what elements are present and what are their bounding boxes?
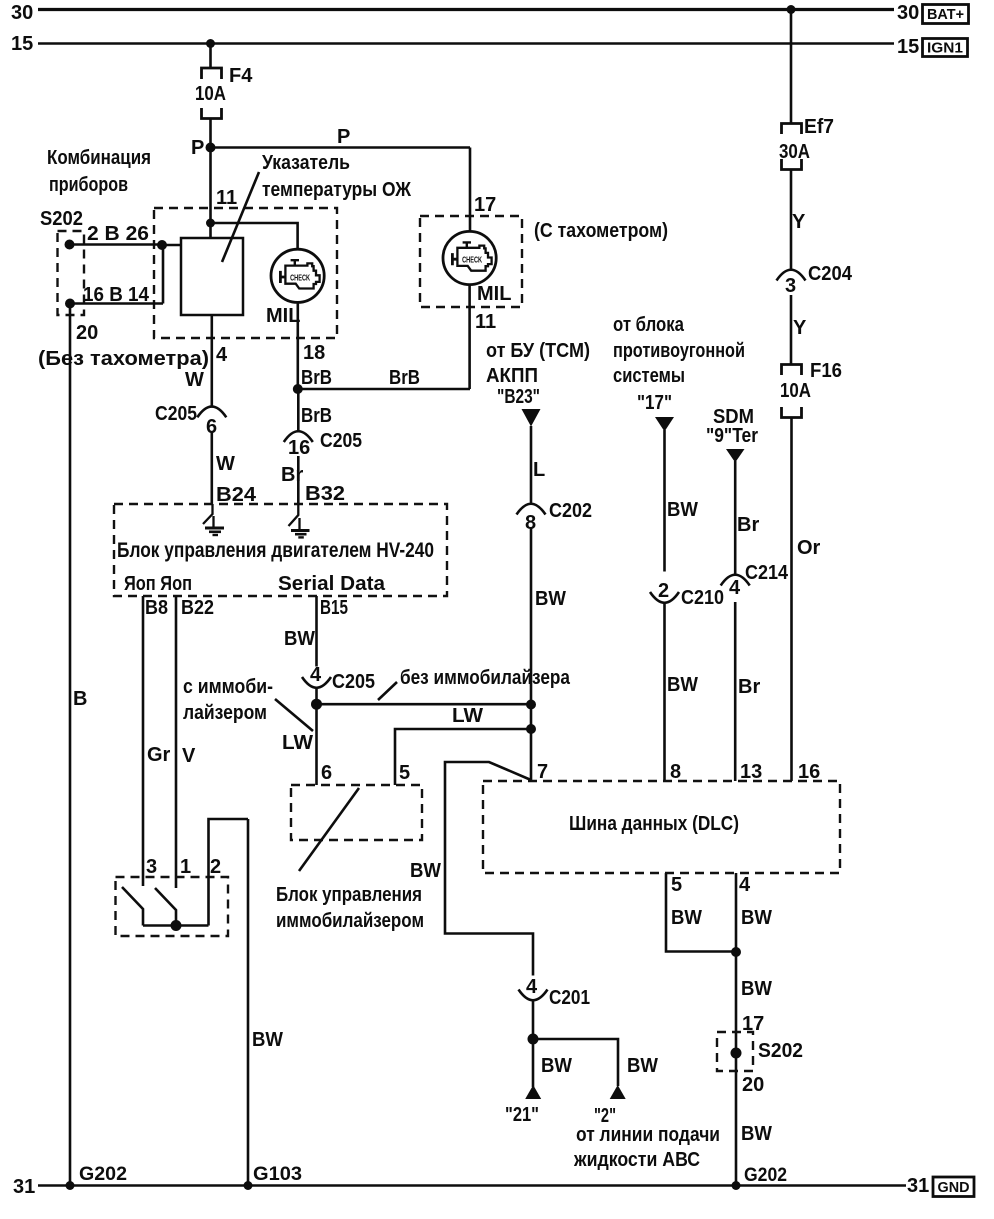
svg-text:7: 7 xyxy=(537,761,548,783)
wire BW from DLC pin 5 xyxy=(666,873,736,952)
svg-text:2: 2 xyxy=(658,580,669,602)
junction immobilizer split xyxy=(311,699,322,710)
wire from bus 30 to fuse Ef7 xyxy=(790,10,793,124)
svg-text:31: 31 xyxy=(13,1176,35,1198)
instrument cluster dashed box xyxy=(154,208,337,338)
svg-text:Y: Y xyxy=(793,317,807,339)
wire LW from junction down to immobilizer pin 6 xyxy=(315,704,318,785)
svg-text:B32: B32 xyxy=(305,483,345,505)
svg-text:18: 18 xyxy=(303,342,325,364)
junction on bus 30 at Ef7 branch xyxy=(787,5,796,14)
svg-text:4: 4 xyxy=(729,577,741,599)
svg-text:W: W xyxy=(216,453,235,475)
svg-text:от линии подачи: от линии подачи xyxy=(576,1124,720,1146)
wire from F4 to node P xyxy=(209,119,212,148)
svg-text:BW: BW xyxy=(252,1029,283,1051)
svg-text:Br: Br xyxy=(738,676,760,698)
svg-text:B22: B22 xyxy=(181,597,214,619)
source arrow B23 xyxy=(522,409,541,427)
wire L from B23 arrow to C202 xyxy=(530,426,533,503)
svg-text:C202: C202 xyxy=(549,500,592,522)
wire B8 (Gr) down to switch pin 3 xyxy=(142,596,145,886)
immobilizer annotation slash xyxy=(299,788,359,871)
svg-text:BAT+: BAT+ xyxy=(927,7,964,23)
svg-text:B8: B8 xyxy=(145,597,168,619)
svg-text:Br: Br xyxy=(737,514,759,536)
connector C205 pin 6 xyxy=(155,403,226,438)
svg-text:B15: B15 xyxy=(320,597,348,619)
svg-text:(С тахометром): (С тахометром) xyxy=(534,220,668,242)
wire S202-16 to cluster pin 14 xyxy=(70,302,163,305)
bus 31 (ground) xyxy=(38,1184,906,1187)
connector S202 lower dashed box xyxy=(717,1032,753,1071)
coolant temperature gauge rectangle xyxy=(181,238,243,315)
svg-text:31: 31 xyxy=(907,1175,929,1197)
svg-text:17: 17 xyxy=(474,194,496,216)
junction on bus 15 at F4 branch xyxy=(206,39,215,48)
svg-text:BrB: BrB xyxy=(301,367,332,389)
svg-text:G103: G103 xyxy=(253,1164,302,1185)
wire BW left branch down xyxy=(532,1039,535,1087)
wire Br from C214 to DLC pin 13 xyxy=(734,602,737,781)
svg-text:BW: BW xyxy=(541,1055,572,1077)
connector C201 pin 4 xyxy=(519,976,591,1009)
connector C205 pin 4 xyxy=(302,664,375,693)
switch dashed box xyxy=(116,877,229,936)
wire Y from Ef7 to C204 xyxy=(790,170,793,270)
gauge annotation pointer line xyxy=(222,172,259,262)
GND terminal box xyxy=(933,1177,974,1197)
svg-text:1: 1 xyxy=(180,856,191,878)
svg-text:Шина данных (DLC): Шина данных (DLC) xyxy=(569,813,739,835)
svg-text:BW: BW xyxy=(741,907,772,929)
switch common wire xyxy=(143,924,209,927)
svg-text:"В23": "В23" xyxy=(497,386,540,408)
svg-text:13: 13 xyxy=(740,761,762,783)
svg-text:BrB: BrB xyxy=(389,367,420,389)
svg-text:S202: S202 xyxy=(758,1040,803,1062)
ECU internal ground for B32 xyxy=(289,504,310,537)
fuse F16 10A xyxy=(780,360,842,418)
svg-text:от блока: от блока xyxy=(613,314,685,336)
junction pin5/pin4 merge xyxy=(731,947,741,957)
svg-text:B: B xyxy=(73,688,87,710)
wire from C205-4 to junction xyxy=(315,688,318,705)
junction on bus 31 ground G103 xyxy=(244,1181,253,1190)
svg-text:иммобилайзером: иммобилайзером xyxy=(276,910,424,932)
svg-text:11: 11 xyxy=(216,187,237,209)
svg-text:L: L xyxy=(533,459,545,481)
MIL lamp (with tachometer) xyxy=(443,231,496,284)
wire BW from ECU B15 down xyxy=(315,596,318,667)
svg-text:5: 5 xyxy=(671,874,682,896)
svg-text:20: 20 xyxy=(742,1074,764,1096)
wire vertical pin14 to pin 26 node xyxy=(162,245,165,304)
wire BW down to ground G103 xyxy=(247,819,250,1186)
svg-text:BW: BW xyxy=(667,674,698,696)
svg-text:лайзером: лайзером xyxy=(183,702,267,724)
off-page arrow to "21" xyxy=(525,1085,541,1099)
S202 pin 16 junction xyxy=(65,299,75,309)
svg-text:20: 20 xyxy=(76,322,98,344)
wire Br from SDM arrow to C214 xyxy=(734,461,737,574)
svg-text:G202: G202 xyxy=(744,1165,787,1186)
svg-text:10A: 10A xyxy=(780,380,811,402)
wire branch from DLC pin 7 to C201 chain xyxy=(445,762,533,976)
wire LW from immobilizer pin 5 to DLC7 wire xyxy=(395,729,531,785)
svg-text:4: 4 xyxy=(526,976,538,998)
svg-text:"17": "17" xyxy=(637,392,672,414)
wire P horizontal to tachometer branch xyxy=(211,146,471,149)
svg-text:C204: C204 xyxy=(808,263,853,285)
junction BW split xyxy=(528,1034,539,1045)
svg-text:температуры ОЖ: температуры ОЖ xyxy=(262,179,412,201)
svg-text:BW: BW xyxy=(741,1123,772,1145)
svg-text:16: 16 xyxy=(288,437,310,459)
connector C202 pin 8 xyxy=(517,500,593,534)
S202 lower junction xyxy=(731,1048,742,1059)
bus 15 (ignition feed) xyxy=(38,42,894,45)
MIL lamp (cluster, without tachometer) xyxy=(271,249,324,302)
svg-text:Gr: Gr xyxy=(147,744,171,766)
connector S202 upper dashed box xyxy=(58,231,85,315)
svg-text:10A: 10A xyxy=(195,83,226,105)
connector C214 pin 4 xyxy=(721,562,789,599)
data bus DLC dashed box xyxy=(483,781,840,873)
svg-text:30: 30 xyxy=(897,2,919,24)
svg-text:Br: Br xyxy=(281,464,303,486)
wire C205-16 to ECU pin B32 xyxy=(297,456,300,504)
svg-text:4: 4 xyxy=(216,344,228,366)
svg-text:C205: C205 xyxy=(332,671,375,693)
junction at DLC7 wire top xyxy=(526,700,536,710)
svg-text:системы: системы xyxy=(613,365,685,387)
svg-text:P: P xyxy=(337,126,350,148)
tachometer cluster dashed box xyxy=(420,216,522,307)
immobilizer control unit dashed box xyxy=(291,785,422,840)
svg-text:2 В 26: 2 В 26 xyxy=(87,223,149,245)
svg-text:жидкости АВС: жидкости АВС xyxy=(573,1149,700,1171)
svg-text:C214: C214 xyxy=(745,562,789,584)
svg-text:Serial Data: Serial Data xyxy=(278,573,386,595)
svg-text:BW: BW xyxy=(410,860,441,882)
wire BrB horizontal to tachometer MIL xyxy=(298,388,470,391)
svg-text:"21": "21" xyxy=(505,1104,539,1126)
switch common junction xyxy=(171,920,182,931)
svg-text:Указатель: Указатель xyxy=(262,152,350,174)
svg-text:"9"Ter: "9"Ter xyxy=(706,425,758,447)
svg-text:30: 30 xyxy=(11,2,33,24)
wire P branch down to tachometer MIL xyxy=(469,148,472,233)
junction BrB node xyxy=(293,384,303,394)
svg-text:C205: C205 xyxy=(320,430,362,452)
svg-text:6: 6 xyxy=(321,762,332,784)
wire switch pin 2 up and over xyxy=(209,819,249,926)
engine control unit dashed box xyxy=(114,504,447,596)
svg-text:V: V xyxy=(182,745,196,767)
wire gauge pin 4 down xyxy=(211,315,214,406)
wire tacho MIL pin 11 down to BrB net xyxy=(468,284,471,389)
svg-text:LW: LW xyxy=(452,705,483,727)
wire BW from C202 to DLC pin 7 xyxy=(530,529,533,782)
svg-text:30A: 30A xyxy=(779,141,810,163)
wire MIL lamp pin 18 down xyxy=(296,302,299,389)
wire BrB junction down to C205-16 xyxy=(297,389,300,431)
svg-text:P: P xyxy=(191,137,204,159)
pointer line with-immobilizer xyxy=(275,699,313,731)
svg-text:АКПП: АКПП xyxy=(486,365,538,387)
connector C204 pin 3 xyxy=(777,263,853,297)
junction on bus 31 ground G202 right xyxy=(732,1181,741,1190)
wire pin26 to temperature gauge xyxy=(162,244,181,247)
junction at cluster pin 26 xyxy=(157,240,167,250)
svg-text:приборов: приборов xyxy=(49,174,128,196)
svg-text:Y: Y xyxy=(792,211,806,233)
svg-text:Or: Or xyxy=(797,537,821,559)
junction LW at DLC7 wire xyxy=(526,724,536,734)
svg-text:Комбинация: Комбинация xyxy=(47,147,151,169)
svg-text:4: 4 xyxy=(739,874,751,896)
svg-text:G202: G202 xyxy=(79,1164,127,1185)
wire from C201 to split junction xyxy=(532,1000,535,1039)
svg-text:3: 3 xyxy=(146,856,157,878)
svg-text:Яоп Яоп: Яоп Яоп xyxy=(124,573,192,595)
svg-text:BW: BW xyxy=(627,1055,658,1077)
svg-text:GND: GND xyxy=(938,1180,970,1196)
svg-text:BW: BW xyxy=(535,588,566,610)
wire from bus 15 to fuse F4 xyxy=(209,44,212,68)
svg-text:4: 4 xyxy=(310,664,322,686)
svg-text:16: 16 xyxy=(798,761,820,783)
wire S202-2 to cluster pin 26 xyxy=(70,243,163,246)
svg-text:11: 11 xyxy=(475,311,496,333)
IGN1 terminal box xyxy=(923,39,968,57)
connector C205 pin 16 xyxy=(284,430,362,459)
source arrow SDM xyxy=(726,449,745,463)
wire BW from DLC pin 4 to ground G202 xyxy=(735,873,738,1186)
fuse Ef7 30A xyxy=(779,116,834,170)
junction on bus 31 ground G202 left xyxy=(66,1181,75,1190)
svg-text:с иммоби-: с иммоби- xyxy=(183,676,273,698)
svg-text:BW: BW xyxy=(671,907,702,929)
wire Or from F16 to DLC pin 16 xyxy=(790,418,793,782)
fuse F4 10A xyxy=(195,65,253,119)
svg-text:(Без тахометра): (Без тахометра) xyxy=(38,348,209,370)
switch blade from pin 1 xyxy=(155,888,176,926)
svg-text:противоугонной: противоугонной xyxy=(613,340,745,362)
svg-text:F4: F4 xyxy=(229,65,253,87)
wire B22 (V) down to switch pin 1 xyxy=(175,596,178,888)
svg-text:C205: C205 xyxy=(155,403,197,425)
connector C210 pin 2 xyxy=(650,580,724,609)
svg-text:LW: LW xyxy=(282,732,313,754)
off-page arrow to "2" xyxy=(610,1085,626,1099)
svg-text:Блок управления: Блок управления xyxy=(276,884,422,906)
switch blade from pin 3 xyxy=(122,887,143,926)
wire BW from arrow 17 to C210 xyxy=(663,430,666,572)
svg-text:IGN1: IGN1 xyxy=(927,41,963,57)
source arrow 17 xyxy=(655,417,674,432)
svg-text:C210: C210 xyxy=(681,587,724,609)
wire BW from C210 to DLC pin 8 xyxy=(663,604,666,782)
svg-text:F16: F16 xyxy=(810,360,842,382)
svg-text:BW: BW xyxy=(667,499,698,521)
svg-text:S202: S202 xyxy=(40,208,83,230)
wire pin 11 junction to MIL lamp xyxy=(211,223,298,249)
svg-text:C201: C201 xyxy=(549,987,590,1009)
ECU internal ground for B24 xyxy=(203,504,224,535)
pointer line without-immobilizer xyxy=(378,682,397,700)
svg-text:MIL: MIL xyxy=(477,283,511,305)
wire bypass (without immobilizer) horizontal xyxy=(317,703,532,706)
wire BW right branch xyxy=(533,1039,618,1086)
S202 pin 2 junction xyxy=(65,240,75,250)
bus 30 (battery feed) xyxy=(38,8,894,11)
svg-text:Ef7: Ef7 xyxy=(804,116,834,138)
svg-text:5: 5 xyxy=(399,762,410,784)
svg-text:MIL: MIL xyxy=(266,305,300,327)
svg-text:Блок управления двигателем HV-: Блок управления двигателем HV-240 xyxy=(117,539,434,562)
svg-text:15: 15 xyxy=(897,36,919,58)
wire Y from C204 to F16 xyxy=(790,295,793,364)
node P junction xyxy=(206,143,216,153)
svg-text:15: 15 xyxy=(11,33,33,55)
junction inside cluster at pin 11 xyxy=(206,219,215,228)
svg-text:BW: BW xyxy=(284,628,315,650)
wire C205-6 to ECU pin B24 xyxy=(211,432,214,504)
svg-text:от БУ (ТСМ): от БУ (ТСМ) xyxy=(486,340,590,362)
svg-text:W: W xyxy=(185,369,204,391)
svg-text:BrB: BrB xyxy=(301,405,332,427)
BAT+ terminal box xyxy=(923,5,969,24)
svg-text:BW: BW xyxy=(741,978,772,1000)
svg-text:B24: B24 xyxy=(216,484,257,506)
svg-text:8: 8 xyxy=(670,761,681,783)
svg-text:без иммобилайзера: без иммобилайзера xyxy=(400,667,571,689)
svg-text:2: 2 xyxy=(210,856,221,878)
wire P down to instrument cluster pin 11 xyxy=(209,148,212,239)
svg-text:3: 3 xyxy=(785,275,796,297)
wire B from S202 pin 16 down to ground bus xyxy=(69,304,72,1186)
